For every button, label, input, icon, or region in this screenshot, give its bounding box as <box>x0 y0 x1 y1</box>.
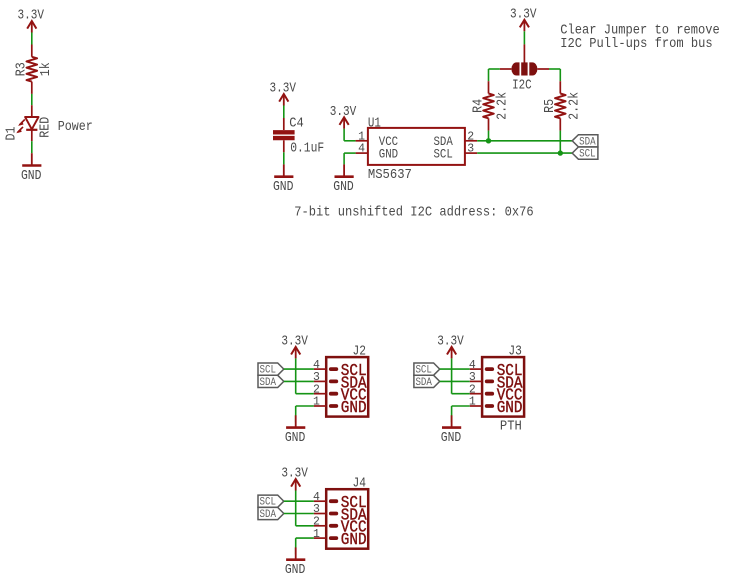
junction SDA/R4 <box>486 138 491 143</box>
flag SDA (J2) <box>258 375 284 389</box>
svg-text:3: 3 <box>467 143 474 156</box>
power flag 3.3V (C4) <box>269 82 296 106</box>
wire SCL to J3 pin 4 <box>440 368 470 370</box>
svg-text:2: 2 <box>313 383 320 396</box>
svg-text:SDA: SDA <box>415 377 432 389</box>
svg-text:4: 4 <box>313 491 320 504</box>
svg-text:0.1uF: 0.1uF <box>290 142 324 157</box>
connector J4 box <box>313 477 368 549</box>
wire 3.3V to J4 VCC pin 2 <box>296 491 314 526</box>
svg-text:3: 3 <box>313 503 320 516</box>
pin 4 (SCL) of J4 <box>313 491 367 512</box>
svg-text:I2C Pull-ups from bus: I2C Pull-ups from bus <box>560 36 712 52</box>
pin 3 (SCL) of U1 <box>434 143 478 162</box>
LED D1 RED <box>5 105 54 141</box>
connector J2 box <box>313 345 368 417</box>
svg-text:R3: R3 <box>15 62 30 76</box>
flag SDA (J3) <box>414 375 440 389</box>
ground (LED branch) <box>21 153 42 184</box>
pin 2 (SDA) of U1 <box>434 130 478 149</box>
svg-text:C4: C4 <box>289 116 304 131</box>
svg-text:J2: J2 <box>353 345 367 360</box>
flag SCL (J3) <box>414 363 440 377</box>
ground (J4) <box>285 547 306 578</box>
svg-text:GND: GND <box>285 563 306 578</box>
svg-text:4: 4 <box>313 359 320 372</box>
wire SDA to J2 pin 3 <box>284 380 314 382</box>
wire 3.3V to U1 VCC pin 1 <box>344 129 356 141</box>
power flag 3.3V (J4) <box>281 467 308 491</box>
flag SCL (J2) <box>258 363 284 377</box>
svg-text:1: 1 <box>313 528 320 541</box>
svg-text:1k: 1k <box>39 62 54 76</box>
wire 3.3V to jumper I2C <box>523 31 525 44</box>
svg-text:R4: R4 <box>471 99 486 113</box>
svg-text:GND: GND <box>497 398 523 417</box>
svg-text:D1: D1 <box>5 127 20 141</box>
wire SCL to J4 pin 4 <box>284 500 314 502</box>
svg-text:GND: GND <box>273 180 294 195</box>
pin 4 (SCL) of J3 <box>469 359 523 380</box>
wire R5 to SCL net <box>559 131 561 154</box>
svg-text:GND: GND <box>441 431 462 446</box>
svg-text:R5: R5 <box>543 99 558 113</box>
wire 3.3V to J2 VCC pin 2 <box>296 358 314 393</box>
flag SCL (net label) <box>572 147 598 161</box>
jumper I2C <box>500 44 549 93</box>
svg-text:GND: GND <box>285 431 306 446</box>
pin 1 (GND) of J4 <box>313 528 367 549</box>
wire C4 to GND <box>283 152 285 164</box>
power flag 3.3V (J2) <box>281 334 308 358</box>
wire GND to J4 pin 1 <box>296 538 314 554</box>
svg-text:J4: J4 <box>353 477 367 492</box>
note: clear jumper text <box>560 22 720 52</box>
power flag 3.3V (J3) <box>437 334 464 358</box>
svg-text:GND: GND <box>21 169 42 184</box>
pin 3 (SDA) of J4 <box>313 503 367 524</box>
svg-text:3: 3 <box>469 371 476 384</box>
pin 4 (GND) of U1 <box>356 143 399 162</box>
svg-text:GND: GND <box>341 398 367 417</box>
svg-text:7-bit unshifted I2C address: 0: 7-bit unshifted I2C address: 0x76 <box>294 205 534 221</box>
svg-text:GND: GND <box>341 530 367 549</box>
flag SDA (J4) <box>258 507 284 521</box>
svg-text:2: 2 <box>313 516 320 529</box>
wire SCL to J2 pin 4 <box>284 368 314 370</box>
pin 4 (SCL) of J2 <box>313 359 367 380</box>
IC U1 MS5637 <box>356 116 478 182</box>
wire R4 to SDA net <box>488 131 490 141</box>
connector J3 box <box>469 345 524 435</box>
svg-text:U1: U1 <box>368 116 381 131</box>
pin 1 (VCC) of U1 <box>356 130 399 149</box>
svg-text:1: 1 <box>358 130 365 143</box>
svg-text:SDA: SDA <box>260 509 277 521</box>
svg-text:PTH: PTH <box>500 419 522 434</box>
wire SDA net <box>477 140 572 142</box>
pin 1 (GND) of J2 <box>313 396 367 417</box>
ground (C4) <box>273 164 294 195</box>
flag SCL (J4) <box>258 495 284 509</box>
svg-text:RED: RED <box>39 117 54 138</box>
svg-text:1: 1 <box>469 396 476 409</box>
wire 3.3V to C4 <box>283 106 285 119</box>
wire GND to J2 pin 1 <box>296 406 314 422</box>
svg-text:2: 2 <box>469 383 476 396</box>
wire GND to J3 pin 1 <box>452 406 470 422</box>
ground (U1) <box>333 164 354 195</box>
svg-text:I2C: I2C <box>512 79 532 94</box>
svg-text:Power: Power <box>58 120 93 135</box>
resistor R3 1k <box>15 45 54 94</box>
wire SDA to J4 pin 3 <box>284 513 314 515</box>
wire R3 to D1 <box>31 94 33 105</box>
wire jumper to R5 <box>549 69 560 81</box>
svg-text:2: 2 <box>467 130 474 143</box>
power flag 3.3V (U1) <box>330 105 357 129</box>
pin 2 (VCC) of J3 <box>469 383 523 404</box>
ground (J3) <box>441 415 462 446</box>
svg-text:MS5637: MS5637 <box>368 168 412 183</box>
svg-text:3: 3 <box>313 371 320 384</box>
pin 3 (SDA) of J2 <box>313 371 367 392</box>
svg-text:1: 1 <box>313 396 320 409</box>
junction SCL/R5 <box>558 150 563 155</box>
svg-text:SDA: SDA <box>260 377 277 389</box>
svg-text:4: 4 <box>469 359 476 372</box>
pin 2 (VCC) of J4 <box>313 516 367 537</box>
ground (J2) <box>285 415 306 446</box>
wire jumper to R4 <box>489 69 500 81</box>
wire 3.3V to R3 <box>31 33 33 45</box>
pin 2 (VCC) of J2 <box>313 383 367 404</box>
resistor R5 2.2k <box>543 81 582 130</box>
pin 3 (SDA) of J3 <box>469 371 523 392</box>
flag SDA (net label) <box>572 135 598 149</box>
wire 3.3V to J3 VCC pin 2 <box>452 358 470 393</box>
wire D1 to GND <box>31 141 33 153</box>
power flag 3.3V (LED branch) <box>17 9 44 33</box>
resistor R4 2.2k <box>471 81 510 130</box>
pin 1 (GND) of J3 <box>469 396 523 417</box>
power flag 3.3V (pull-ups) <box>510 7 537 31</box>
svg-text:GND: GND <box>379 146 398 161</box>
svg-text:SCL: SCL <box>579 149 596 161</box>
svg-text:2.2k: 2.2k <box>567 92 582 120</box>
svg-text:4: 4 <box>358 143 365 156</box>
wire SCL net <box>477 152 572 154</box>
wire U1 GND pin 4 <box>344 153 356 164</box>
svg-text:J3: J3 <box>508 345 522 360</box>
svg-text:SCL: SCL <box>434 146 453 161</box>
capacitor C4 0.1uF <box>273 116 324 156</box>
svg-text:GND: GND <box>333 180 354 195</box>
svg-text:2.2k: 2.2k <box>496 92 511 120</box>
wire SDA to J3 pin 3 <box>440 380 470 382</box>
